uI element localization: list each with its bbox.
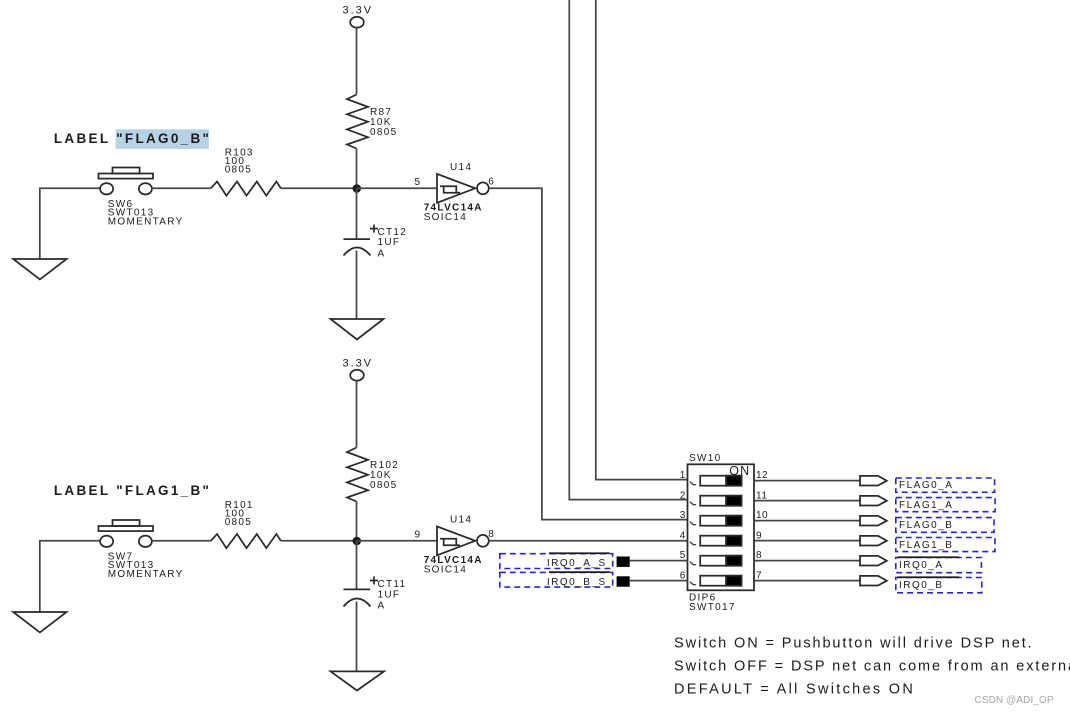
- ground (left, bottom circuit): [13, 612, 66, 632]
- offpage arrow FLAG1_B: [860, 536, 887, 546]
- net label IRQ0_B_S box: [500, 572, 613, 587]
- offpage arrow IRQ0_A: [860, 556, 887, 566]
- overline IRQ0_A_S: [549, 552, 610, 554]
- wire R102 to node B: [356, 502, 358, 541]
- svg-text:0805: 0805: [370, 127, 397, 138]
- wire vertical net to pin 2: [569, 0, 687, 500]
- svg-text:3: 3: [680, 510, 686, 521]
- svg-text:3.3V: 3.3V: [343, 5, 374, 17]
- offpage arrow FLAG1_A: [860, 496, 887, 506]
- net label FLAG0_B box: [896, 518, 994, 533]
- DIP pin ticks: [690, 482, 696, 585]
- net label IRQ0_B box: [896, 578, 982, 593]
- inverter U14 gate A: [437, 174, 489, 203]
- wire inverter out 6 going right and down to pin3: [489, 188, 688, 519]
- net label FLAG0_A box: [896, 478, 995, 492]
- wire node B to inverter input: [357, 540, 438, 542]
- svg-text:11: 11: [756, 490, 767, 501]
- offpage arrow FLAG0_A: [860, 476, 887, 486]
- wire R87 to node A: [356, 149, 358, 189]
- svg-text:U14: U14: [450, 515, 472, 526]
- wire CT11 to ground: [356, 602, 358, 672]
- svg-text:CSDN @ADI_OP: CSDN @ADI_OP: [975, 695, 1054, 706]
- resistor R102: [347, 448, 368, 502]
- svg-text:5: 5: [680, 550, 686, 561]
- ground (below CT12): [331, 319, 384, 340]
- power 3.3V (bottom): [350, 370, 364, 448]
- svg-text:Switch OFF = DSP net can come: Switch OFF = DSP net can come from an ex…: [674, 659, 1070, 675]
- svg-text:U14: U14: [450, 162, 472, 173]
- svg-text:0805: 0805: [225, 517, 252, 528]
- svg-text:IRQ0_A_S: IRQ0_A_S: [547, 558, 607, 569]
- svg-text:4: 4: [680, 530, 686, 541]
- svg-text:3.3V: 3.3V: [343, 358, 374, 370]
- inverter U14 gate B: [437, 526, 489, 555]
- svg-text:FLAG1_B: FLAG1_B: [899, 540, 953, 551]
- svg-text:MOMENTARY: MOMENTARY: [108, 216, 184, 227]
- svg-text:8: 8: [756, 550, 762, 561]
- svg-text:IRQ0_A: IRQ0_A: [899, 560, 944, 571]
- overline IRQ0_B: [897, 576, 959, 578]
- svg-text:ON: ON: [729, 464, 750, 478]
- svg-text:SW10: SW10: [689, 453, 721, 464]
- resistor R87: [347, 95, 368, 149]
- svg-text:8: 8: [488, 529, 494, 540]
- wire SW6 to R103: [152, 187, 211, 189]
- net label FLAG1_B box: [896, 538, 995, 552]
- svg-text:10: 10: [756, 510, 768, 521]
- node A junction: [353, 184, 362, 193]
- wire pin 11 to offpage FLAG1_A: [755, 500, 861, 502]
- svg-text:6: 6: [488, 176, 494, 187]
- offpage arrow IRQ0_B: [860, 576, 887, 586]
- svg-text:CT12: CT12: [378, 227, 408, 238]
- svg-text:FLAG1_A: FLAG1_A: [899, 500, 953, 511]
- ground (left, top circuit): [13, 259, 66, 279]
- svg-text:FLAG0_B: FLAG0_B: [899, 520, 953, 531]
- svg-text:1UF: 1UF: [378, 589, 401, 600]
- ground (below CT11): [331, 671, 385, 690]
- power 3.3V (top): [350, 17, 364, 95]
- wire IRQ0_B_S to pin 6: [630, 580, 688, 582]
- svg-text:LABEL "FLAG0_B": LABEL "FLAG0_B": [54, 131, 211, 146]
- net label IRQ0_A box: [896, 558, 982, 573]
- svg-text:1: 1: [680, 470, 686, 481]
- svg-text:1UF: 1UF: [378, 237, 401, 248]
- wire IRQ0_A_S to pin 5: [630, 560, 688, 562]
- highlight FLAG0_B label: [116, 129, 209, 149]
- capacitor CT12: [344, 225, 379, 256]
- svg-text:IRQ0_B_S: IRQ0_B_S: [547, 577, 607, 588]
- svg-text:6: 6: [680, 570, 686, 581]
- svg-text:0805: 0805: [225, 164, 252, 175]
- svg-text:9: 9: [415, 530, 421, 541]
- svg-text:CT11: CT11: [378, 579, 407, 590]
- net label IRQ0_A_S box: [500, 554, 613, 569]
- wire left ground to SW7: [40, 541, 101, 612]
- svg-text:SOIC14: SOIC14: [424, 212, 467, 223]
- wire vertical net to pin 1: [596, 0, 688, 480]
- wire pin 8 to offpage IRQ0_A: [755, 560, 861, 562]
- DIP switch rockers: [700, 476, 741, 586]
- svg-text:5: 5: [415, 177, 421, 188]
- DIP switch SW10 body: [688, 464, 755, 590]
- wire node A to capacitor CT12: [356, 188, 358, 239]
- offpage connector square IRQ0_A_S: [617, 557, 630, 567]
- node B junction: [353, 537, 362, 546]
- svg-text:7: 7: [756, 570, 762, 581]
- net label FLAG1_A box: [896, 498, 995, 512]
- offpage arrow FLAG0_B: [860, 516, 887, 526]
- svg-text:0805: 0805: [370, 480, 397, 491]
- wire pin 10 to offpage FLAG0_B: [755, 520, 861, 522]
- resistor R103: [211, 182, 281, 196]
- svg-text:12: 12: [756, 470, 768, 481]
- wire pin 9 to offpage FLAG1_B: [755, 540, 861, 542]
- svg-text:DEFAULT = All Switches ON: DEFAULT = All Switches ON: [674, 682, 915, 698]
- wire node B to capacitor CT11: [356, 541, 358, 589]
- wire pin 7 to offpage IRQ0_B: [755, 580, 861, 582]
- svg-text:A: A: [378, 249, 386, 260]
- wire SW7 to R101: [152, 540, 211, 542]
- switch SW6 pushbutton: [99, 168, 154, 195]
- wire node A to inverter input: [357, 187, 438, 189]
- switch SW7 pushbutton: [99, 520, 154, 547]
- svg-text:MOMENTARY: MOMENTARY: [108, 569, 184, 580]
- svg-text:LABEL "FLAG1_B": LABEL "FLAG1_B": [54, 483, 211, 498]
- wire left ground to SW6: [40, 188, 101, 259]
- svg-text:SWT017: SWT017: [689, 602, 736, 613]
- wire pin 12 to offpage FLAG0_A: [755, 480, 861, 482]
- svg-text:SOIC14: SOIC14: [424, 565, 467, 576]
- svg-text:9: 9: [756, 530, 762, 541]
- svg-text:FLAG0_A: FLAG0_A: [899, 480, 953, 491]
- overline IRQ0_B_S: [549, 571, 610, 573]
- wire CT12 to ground: [356, 251, 358, 320]
- wire R103 to node A: [281, 187, 357, 189]
- resistor R101: [211, 534, 281, 548]
- capacitor CT11: [344, 577, 379, 607]
- overline IRQ0_A: [897, 556, 959, 558]
- svg-text:2: 2: [680, 490, 686, 501]
- offpage connector square IRQ0_B_S: [617, 576, 630, 586]
- wire R101 to node B: [281, 540, 357, 542]
- svg-text:A: A: [378, 601, 386, 612]
- svg-text:Switch ON = Pushbutton will dr: Switch ON = Pushbutton will drive DSP ne…: [674, 636, 1034, 652]
- wire inverter out 8 to pin 4: [489, 540, 688, 542]
- svg-text:IRQ0_B: IRQ0_B: [899, 580, 944, 591]
